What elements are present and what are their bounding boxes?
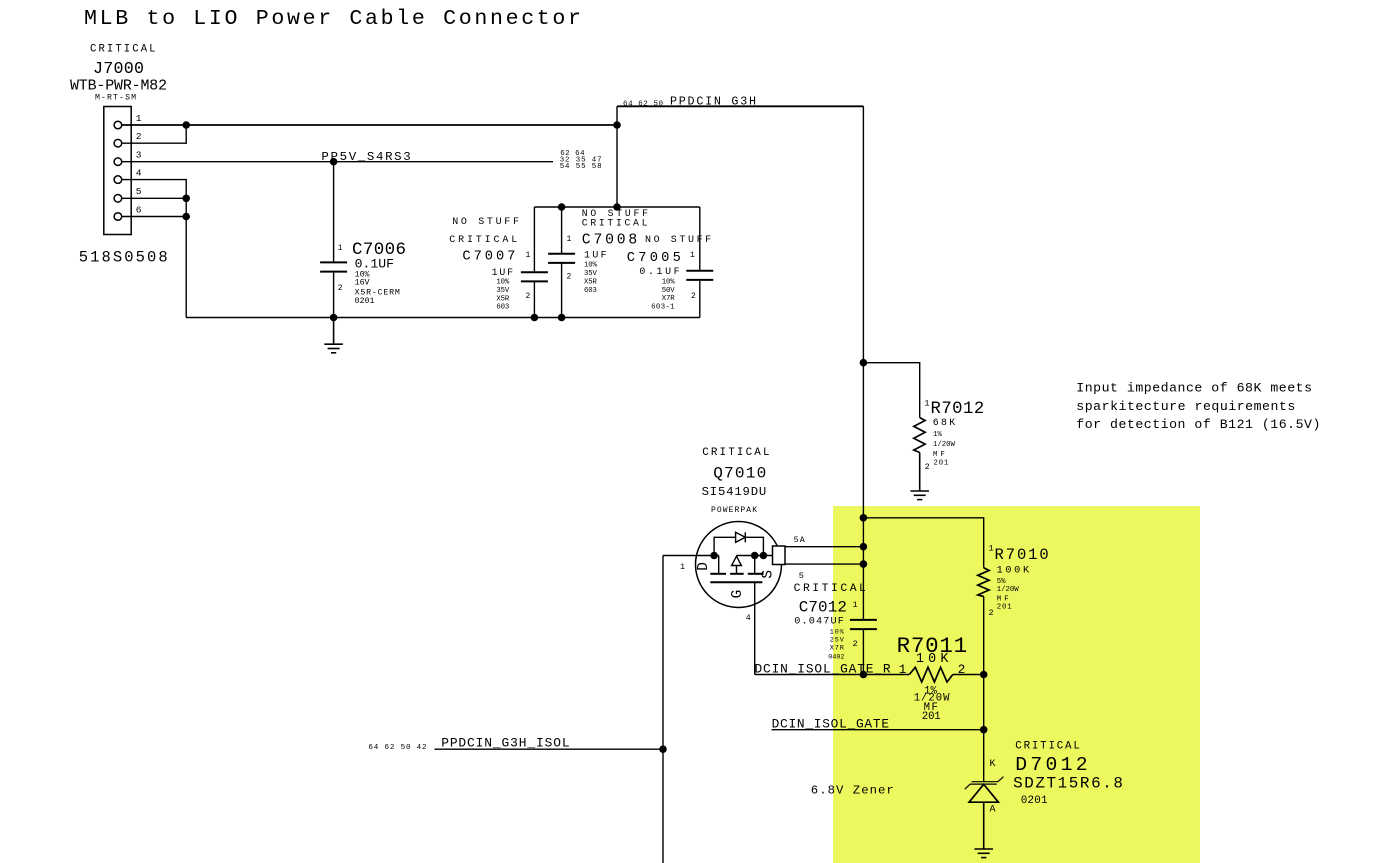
svg-text:M-RT-SM: M-RT-SM <box>95 94 136 103</box>
Q7010 gate plate <box>710 581 762 583</box>
wire C7008 bottom <box>561 263 563 318</box>
svg-text:J7000: J7000 <box>93 60 144 79</box>
svg-text:for detection of B121 (16.5V): for detection of B121 (16.5V) <box>1076 417 1320 432</box>
svg-text:DCIN_ISOL_GATE: DCIN_ISOL_GATE <box>772 717 890 732</box>
connector pin 1 <box>114 121 122 129</box>
svg-text:10%: 10% <box>830 628 845 636</box>
svg-text:SDZT15R6.8: SDZT15R6.8 <box>1013 775 1123 793</box>
junction 5 <box>860 560 868 568</box>
svg-text:5A: 5A <box>794 536 805 545</box>
wire pin1 net <box>122 124 618 126</box>
svg-text:1: 1 <box>853 600 858 610</box>
junction 5A <box>860 543 868 551</box>
capacitor C7012 <box>850 620 877 629</box>
svg-text:1%: 1% <box>933 431 942 439</box>
svg-text:A: A <box>990 805 996 816</box>
wire pin2 to pin1 <box>122 125 187 143</box>
junction DCIN_ISOL_GATE <box>980 726 988 734</box>
connector pin 4 <box>114 176 122 184</box>
svg-text:3: 3 <box>136 150 142 161</box>
svg-text:64 62 50: 64 62 50 <box>623 101 663 109</box>
svg-text:10%: 10% <box>584 262 598 270</box>
junction R7011 out <box>980 671 988 679</box>
wire C7008 top <box>561 207 563 254</box>
capacitor C7007 <box>521 272 548 281</box>
wire 5 <box>785 563 863 565</box>
svg-text:POWERPAK: POWERPAK <box>711 506 757 515</box>
junction C7007 rail <box>531 314 539 322</box>
svg-text:K: K <box>990 759 996 770</box>
wire gate vertical <box>754 582 756 674</box>
svg-text:C7007: C7007 <box>462 249 515 264</box>
svg-text:D: D <box>696 562 712 571</box>
svg-text:6.8V Zener: 6.8V Zener <box>811 784 894 798</box>
wire DCIN_ISOL_GATE_R left <box>755 674 910 676</box>
wire cap top bus <box>534 206 699 208</box>
capacitor C7008 <box>548 254 575 263</box>
wire C7006 top <box>333 162 335 263</box>
svg-text:1: 1 <box>526 251 531 260</box>
svg-text:S: S <box>760 570 776 579</box>
wire Q7010 drain entry <box>663 555 719 557</box>
wire ground rail <box>186 317 700 319</box>
svg-text:1: 1 <box>338 244 343 253</box>
svg-text:2: 2 <box>989 608 994 618</box>
wire C7007 top <box>533 207 535 272</box>
svg-text:1UF: 1UF <box>492 267 513 278</box>
ground C7006 <box>324 318 343 353</box>
capacitor C7005 <box>686 271 713 280</box>
svg-text:5%: 5% <box>997 578 1006 586</box>
svg-text:0.047UF: 0.047UF <box>794 616 844 627</box>
svg-text:X7R: X7R <box>662 295 676 303</box>
ground R7012 <box>910 453 929 500</box>
svg-text:54 55 58: 54 55 58 <box>560 163 602 171</box>
svg-text:2: 2 <box>567 273 572 282</box>
wire Q7010 drain stub <box>718 556 720 574</box>
svg-text:68K: 68K <box>933 417 956 428</box>
wire PPDCIN_G3H_ISOL <box>435 748 664 750</box>
wire C7007 bottom <box>533 281 535 317</box>
svg-text:1: 1 <box>680 562 685 572</box>
wire DCIN_ISOL_GATE <box>772 729 984 731</box>
svg-text:100K: 100K <box>997 565 1030 576</box>
svg-text:2: 2 <box>853 639 858 649</box>
svg-text:2: 2 <box>958 663 966 677</box>
wire C7005 bottom <box>699 280 701 318</box>
junction C7008 rail <box>558 314 566 322</box>
highlight region <box>833 506 1200 863</box>
svg-text:D7012: D7012 <box>1015 754 1087 776</box>
wire pin3 PP5V_S4RS3 <box>122 161 554 163</box>
wire R7012 branch <box>863 363 919 418</box>
svg-text:Input impedance of 68K meets: Input impedance of 68K meets <box>1076 381 1312 396</box>
junction Q7010 source a <box>751 552 759 560</box>
svg-text:4: 4 <box>746 613 751 623</box>
svg-text:1: 1 <box>136 113 142 124</box>
svg-text:35V: 35V <box>584 270 598 278</box>
svg-text:0201: 0201 <box>355 297 375 306</box>
svg-text:G: G <box>730 590 746 599</box>
svg-text:PPDCIN G3H: PPDCIN G3H <box>670 94 756 108</box>
wire pin4 down <box>122 180 187 318</box>
wire Q7010 body rail <box>737 555 773 557</box>
svg-text:1UF: 1UF <box>584 250 607 261</box>
svg-text:6: 6 <box>136 204 142 215</box>
svg-text:X5R: X5R <box>496 295 510 303</box>
svg-text:PPDCIN_G3H_ISOL: PPDCIN_G3H_ISOL <box>441 736 569 751</box>
svg-text:SI5419DU: SI5419DU <box>702 485 767 499</box>
svg-text:10%: 10% <box>496 278 510 286</box>
wire 5A <box>785 546 863 548</box>
wire Q7010 source stub <box>754 556 756 574</box>
Q7010 body diode <box>736 532 746 542</box>
svg-text:CRITICAL: CRITICAL <box>1015 740 1080 752</box>
svg-text:1: 1 <box>989 544 994 554</box>
svg-text:1: 1 <box>690 251 695 260</box>
svg-text:C7012: C7012 <box>799 598 847 616</box>
diode D7012 zener bar <box>965 777 1004 790</box>
wire R7010 top <box>863 518 983 568</box>
svg-text:10%: 10% <box>662 279 676 287</box>
svg-text:DCIN_ISOL_GATE_R: DCIN_ISOL_GATE_R <box>755 661 891 676</box>
svg-text:1/20W: 1/20W <box>933 441 956 449</box>
junction C7008 top <box>558 203 566 211</box>
svg-text:1/20W: 1/20W <box>997 586 1020 594</box>
wire vertical at 617 <box>616 106 618 207</box>
svg-text:X5R: X5R <box>584 279 598 287</box>
junction pin5 <box>182 195 190 203</box>
svg-text:X5R-CERM: X5R-CERM <box>355 288 400 297</box>
junction Q7010 source b <box>760 552 768 560</box>
connector pin 6 <box>114 213 122 221</box>
transistor Q7010 body <box>696 522 782 608</box>
svg-text:Q7010: Q7010 <box>713 465 766 483</box>
svg-text:X7R: X7R <box>830 645 844 653</box>
junction PP5V-C7006 <box>330 158 338 166</box>
wire Q7010 body diode branch <box>714 537 763 555</box>
svg-text:10K: 10K <box>916 652 949 667</box>
svg-text:16V: 16V <box>355 278 370 287</box>
svg-text:201: 201 <box>922 711 941 723</box>
Q7010 channel bars <box>710 573 763 575</box>
wire PPDCIN_G3H top <box>617 105 863 107</box>
resistor R7012 <box>914 418 925 453</box>
svg-text:5: 5 <box>799 571 804 581</box>
junction C7012 gate <box>860 671 868 679</box>
junction pin1-pin2 <box>182 121 190 129</box>
connector pin 3 <box>114 158 122 166</box>
svg-text:35V: 35V <box>496 287 510 295</box>
svg-text:603: 603 <box>584 287 597 295</box>
wire DCIN_ISOL_GATE_R right <box>953 674 984 676</box>
svg-text:25V: 25V <box>830 636 845 644</box>
junction C7006 rail <box>330 314 338 322</box>
svg-text:0201: 0201 <box>1021 795 1048 807</box>
wire C7006 bottom <box>333 272 335 318</box>
junction R7012 branch <box>860 359 868 367</box>
connector pin 2 <box>114 139 122 147</box>
svg-text:2: 2 <box>691 292 696 301</box>
svg-text:4: 4 <box>136 167 142 178</box>
svg-text:0.1UF: 0.1UF <box>355 256 394 271</box>
capacitor C7006 <box>320 262 347 271</box>
svg-text:1: 1 <box>899 663 907 677</box>
svg-text:2: 2 <box>338 284 343 293</box>
svg-text:C7005: C7005 <box>627 251 681 266</box>
svg-text:2: 2 <box>526 292 531 301</box>
wire R7010 bottom <box>983 597 985 675</box>
connector J7000 body <box>104 107 131 235</box>
svg-text:1: 1 <box>567 235 572 244</box>
svg-text:201: 201 <box>997 603 1012 611</box>
junction pin6 <box>182 213 190 221</box>
junction pin1-617 <box>613 121 621 129</box>
svg-text:WTB-PWR-M82: WTB-PWR-M82 <box>70 79 167 95</box>
svg-text:5: 5 <box>136 186 142 197</box>
svg-text:1: 1 <box>924 398 929 408</box>
svg-text:603-1: 603-1 <box>651 304 675 312</box>
Q7010 body arrow <box>732 556 742 565</box>
junction 617 bus <box>613 203 621 211</box>
resistor R7010 <box>978 568 989 597</box>
wire Q7010 arrow stem <box>736 566 738 574</box>
wire iso vertical <box>662 556 664 863</box>
junction Q7010 drain <box>710 552 718 560</box>
ground D7012 <box>974 802 993 857</box>
junction iso <box>659 745 667 753</box>
svg-text:2: 2 <box>925 462 930 472</box>
wire R7012 bottom <box>919 453 921 492</box>
svg-text:sparkitecture requirements: sparkitecture requirements <box>1076 399 1295 414</box>
svg-text:2: 2 <box>136 131 142 142</box>
diode D7012 triangle <box>969 784 998 802</box>
svg-text:50V: 50V <box>662 287 676 295</box>
wire pin5 <box>122 197 187 199</box>
svg-text:R7010: R7010 <box>995 546 1049 564</box>
junction R7010 branch <box>860 514 868 522</box>
svg-text:C7008: C7008 <box>582 232 637 248</box>
svg-text:64 62 50 42: 64 62 50 42 <box>368 744 427 752</box>
wire zener top <box>983 675 985 783</box>
wire zener bottom <box>983 802 985 849</box>
Q7010 source tab <box>773 546 786 565</box>
svg-text:201: 201 <box>934 459 949 467</box>
wire main vertical <box>862 106 864 674</box>
wire pin6 <box>122 216 187 218</box>
wire C7005 top <box>699 207 701 271</box>
resistor R7011 <box>909 667 953 682</box>
svg-text:603: 603 <box>496 304 509 312</box>
connector pin 5 <box>114 195 122 203</box>
